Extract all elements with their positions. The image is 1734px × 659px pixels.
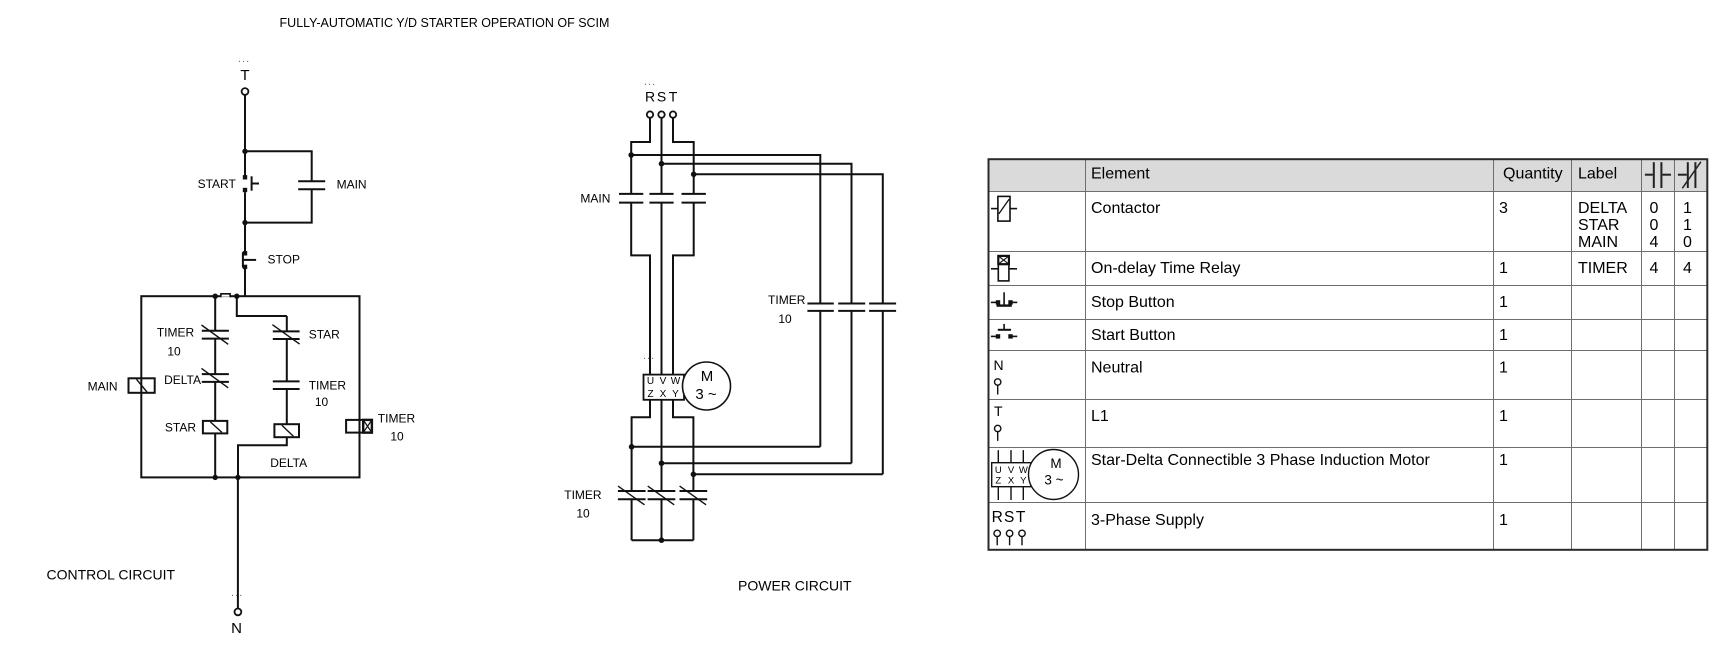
coil STAR <box>203 421 227 434</box>
svg-text:TIMER: TIMER <box>1578 260 1628 277</box>
svg-text:Y: Y <box>1020 476 1027 487</box>
symbol stop button <box>991 292 1017 305</box>
label STAR (middle) <box>309 327 340 341</box>
contact TIMER NO pole 3 <box>869 304 896 311</box>
svg-text:1: 1 <box>1499 327 1508 344</box>
row Contactor labels <box>1578 200 1692 251</box>
svg-text:Label: Label <box>1578 165 1617 182</box>
symbol L1 terminal <box>995 425 1001 441</box>
header Label <box>1578 165 1617 182</box>
junction top of start loop <box>242 149 247 154</box>
junction delta return 1 <box>629 444 635 450</box>
labels R S T <box>645 89 678 105</box>
svg-text:1: 1 <box>1499 359 1508 376</box>
push button STOP <box>243 251 256 269</box>
svg-text:1: 1 <box>1683 217 1692 234</box>
contact TIMER NC star pole 1 <box>618 486 646 505</box>
symbol contactor <box>991 196 1017 221</box>
svg-text:Y: Y <box>672 389 679 400</box>
label TIMER 10 (left) <box>157 326 195 359</box>
svg-text:0: 0 <box>1650 200 1659 217</box>
svg-text:1: 1 <box>1499 452 1508 469</box>
label MAIN (power) <box>580 192 610 206</box>
contact TIMER NO pole 1 <box>807 304 833 311</box>
svg-text:Contactor: Contactor <box>1091 200 1161 217</box>
svg-text:STAR: STAR <box>309 327 340 341</box>
label TIMER 10 (middle) <box>309 378 347 409</box>
wire start bypass loop <box>245 151 312 222</box>
junction star point <box>659 537 665 543</box>
wire star point bar <box>632 539 694 541</box>
svg-text:DELTA: DELTA <box>1578 200 1628 217</box>
svg-text:N: N <box>231 620 242 637</box>
svg-text:Element: Element <box>1091 165 1150 182</box>
svg-text:10: 10 <box>390 430 404 444</box>
wire START to STOP <box>244 192 246 253</box>
svg-text:T: T <box>994 403 1003 419</box>
svg-text:START: START <box>198 177 237 191</box>
svg-text:X: X <box>660 389 667 400</box>
table grid columns <box>1086 159 1675 550</box>
svg-text:T: T <box>240 67 249 84</box>
coil MAIN (left edge) <box>129 378 155 393</box>
title <box>280 16 610 30</box>
wire to N terminal <box>237 477 239 608</box>
node T label <box>240 67 249 84</box>
svg-text:N: N <box>994 357 1004 373</box>
wire delta return 2 <box>662 462 852 464</box>
contact MAIN NO pole 2 <box>649 194 673 203</box>
row Contactor text <box>1091 200 1508 217</box>
svg-text:On-delay Time Relay: On-delay Time Relay <box>1091 260 1240 277</box>
svg-text:M: M <box>701 368 714 385</box>
terminal R <box>647 111 653 117</box>
svg-text:V: V <box>1008 465 1015 476</box>
terminal N <box>235 609 242 616</box>
svg-text:...: ... <box>231 587 243 599</box>
svg-text:Stop Button: Stop Button <box>1091 294 1175 311</box>
svg-text:DELTA: DELTA <box>270 456 307 470</box>
svg-text:W: W <box>671 376 681 387</box>
svg-text:Neutral: Neutral <box>1091 359 1143 376</box>
svg-text:...: ... <box>643 350 655 362</box>
svg-text:TIMER: TIMER <box>378 411 416 425</box>
node N dots mark <box>231 587 243 599</box>
junction delta return 3 <box>691 472 697 478</box>
contact TIMER NC star pole 2 <box>648 486 676 505</box>
svg-text:X: X <box>1008 476 1015 487</box>
svg-text:TIMER: TIMER <box>564 488 602 502</box>
label DELTA (below) <box>270 456 307 470</box>
svg-text:STAR: STAR <box>1578 217 1619 234</box>
svg-text:10: 10 <box>778 312 792 326</box>
junction delta return 2 <box>659 460 665 466</box>
label MAIN (coil) <box>88 379 118 393</box>
svg-text:...: ... <box>238 53 250 65</box>
node RST dots mark <box>644 76 656 88</box>
label STAR (left) <box>165 420 196 434</box>
wire star branch V <box>661 400 663 540</box>
row Supply text <box>1091 512 1508 529</box>
svg-text:1: 1 <box>1499 408 1508 425</box>
svg-text:Start Button: Start Button <box>1091 327 1176 344</box>
junction left branch top <box>213 294 218 299</box>
svg-text:MAIN: MAIN <box>337 178 367 192</box>
junction T branch <box>691 172 697 178</box>
terminal S <box>658 111 664 117</box>
symbol star-delta motor <box>992 450 1079 501</box>
row Stop text <box>1091 294 1508 311</box>
terminal T <box>242 88 249 95</box>
svg-text:4: 4 <box>1683 260 1692 277</box>
wire phase S <box>661 118 663 375</box>
svg-text:W: W <box>1019 465 1028 476</box>
svg-text:T: T <box>669 89 678 105</box>
svg-text:R: R <box>645 89 655 105</box>
svg-text:10: 10 <box>167 345 181 359</box>
svg-text:L1: L1 <box>1091 408 1109 425</box>
contact TIMER NC (left branch) <box>202 325 229 344</box>
caption POWER CIRCUIT <box>738 578 852 594</box>
wire delta feed T <box>694 174 883 474</box>
svg-text:CONTROL CIRCUIT: CONTROL CIRCUIT <box>47 567 176 583</box>
label MAIN <box>337 178 367 192</box>
svg-text:3 ~: 3 ~ <box>695 386 717 403</box>
svg-text:U: U <box>995 465 1002 476</box>
wire star branch W <box>673 400 693 540</box>
coil DELTA <box>274 424 299 437</box>
header NC contact symbol <box>1678 162 1701 189</box>
svg-text:4: 4 <box>1650 234 1659 251</box>
junction R branch <box>628 152 634 158</box>
symbol 3-phase supply <box>992 509 1026 526</box>
wire left branch <box>214 296 216 477</box>
svg-text:10: 10 <box>315 395 329 409</box>
header Quantity <box>1503 165 1563 182</box>
contact TIMER NO pole 2 <box>838 304 865 311</box>
svg-text:0: 0 <box>1683 234 1692 251</box>
wire star branch U <box>632 400 650 540</box>
junction bottom of start loop <box>242 220 247 225</box>
node T dots mark <box>238 53 250 65</box>
label START <box>198 177 237 191</box>
wire delta feed R <box>631 155 820 447</box>
wire phase T <box>673 118 694 375</box>
svg-text:Quantity: Quantity <box>1503 165 1563 182</box>
motor terminal box <box>644 375 685 400</box>
svg-text:MAIN: MAIN <box>88 379 118 393</box>
terminal T <box>670 111 676 117</box>
junction S branch <box>659 161 665 167</box>
label TIMER 10 (right) <box>378 411 416 443</box>
wire junction to START <box>244 151 246 175</box>
junction bottom middle <box>235 475 240 480</box>
svg-text:POWER CIRCUIT: POWER CIRCUIT <box>738 578 852 594</box>
svg-text:MAIN: MAIN <box>1578 234 1618 251</box>
wire delta return 3 <box>693 473 882 475</box>
table outer border <box>989 159 1708 550</box>
svg-text:STOP: STOP <box>268 252 300 266</box>
svg-text:TIMER: TIMER <box>157 326 195 340</box>
svg-text:3: 3 <box>1499 200 1508 217</box>
wire hop on top edge <box>221 294 230 298</box>
label DELTA (left) <box>164 373 201 387</box>
svg-text:3-Phase Supply: 3-Phase Supply <box>1091 512 1204 529</box>
svg-text:MAIN: MAIN <box>580 192 610 206</box>
symbol on-delay time relay <box>991 256 1017 281</box>
svg-text:1: 1 <box>1683 200 1692 217</box>
svg-text:Z: Z <box>995 476 1001 487</box>
row L1 text <box>1091 408 1508 425</box>
table grid rows <box>989 192 1708 503</box>
motor M 3~ <box>683 362 731 410</box>
svg-text:1: 1 <box>1499 512 1508 529</box>
table header fill <box>989 159 1708 191</box>
coil TIMER with X box (right branch) <box>346 420 372 433</box>
row Neutral text <box>1091 359 1508 376</box>
svg-text:10: 10 <box>576 506 590 520</box>
label TIMER 10 (star contacts) <box>564 488 602 521</box>
header NO contact symbol <box>1645 162 1671 188</box>
row Motor text <box>1091 452 1508 469</box>
contact STAR NC (middle branch) <box>272 325 299 344</box>
wire T down to junction <box>244 95 246 151</box>
svg-text:0: 0 <box>1650 217 1659 234</box>
header Element <box>1091 165 1150 182</box>
svg-text:TIMER: TIMER <box>768 293 806 307</box>
svg-text:STAR: STAR <box>165 420 196 434</box>
label STOP <box>268 252 300 266</box>
contact MAIN NO (seal-in) <box>298 181 325 189</box>
svg-text:FULLY-AUTOMATIC Y/D STARTER OP: FULLY-AUTOMATIC Y/D STARTER OPERATION OF… <box>280 16 610 30</box>
svg-text:DELTA: DELTA <box>164 373 201 387</box>
svg-text:U: U <box>647 376 654 387</box>
row On-delay text <box>1091 260 1692 277</box>
contact MAIN NO pole 3 <box>682 194 706 203</box>
svg-text:R: R <box>992 509 1003 526</box>
motor terminal labels <box>647 376 681 400</box>
svg-text:4: 4 <box>1650 260 1659 277</box>
symbol start button <box>991 324 1017 339</box>
svg-text:3 ~: 3 ~ <box>1044 473 1063 488</box>
svg-text:TIMER: TIMER <box>309 378 347 392</box>
contact TIMER NC star pole 3 <box>680 486 708 505</box>
svg-text:...: ... <box>644 76 656 88</box>
caption CONTROL CIRCUIT <box>47 567 176 583</box>
wire middle branch <box>238 316 287 477</box>
wire middle branch top jog <box>237 296 287 316</box>
label TIMER 10 (delta contacts) <box>768 293 806 326</box>
svg-text:S: S <box>1004 509 1014 526</box>
svg-text:Z: Z <box>647 389 653 400</box>
svg-text:S: S <box>657 89 666 105</box>
push button START <box>243 175 259 192</box>
junction bottom left <box>213 475 218 480</box>
contact DELTA NC <box>202 368 229 387</box>
symbol neutral terminal <box>995 379 1001 395</box>
svg-text:V: V <box>660 376 667 387</box>
svg-text:1: 1 <box>1499 260 1508 277</box>
contact MAIN NO pole 1 <box>619 194 643 203</box>
row Start text <box>1091 327 1508 344</box>
wire STOP to rung box <box>244 267 246 296</box>
junction middle branch top <box>234 294 239 299</box>
motor dots mark <box>643 350 655 362</box>
contact TIMER NO delayed (middle) <box>273 381 300 389</box>
svg-text:M: M <box>1050 456 1061 471</box>
control rung outer box <box>141 296 359 477</box>
wire delta return 1 <box>632 446 821 448</box>
node N label <box>231 620 242 637</box>
wire delta feed S <box>662 164 852 464</box>
svg-text:T: T <box>1016 509 1026 526</box>
wire phase R <box>631 118 650 375</box>
svg-text:Star-Delta Connectible 3 Phase: Star-Delta Connectible 3 Phase Induction… <box>1091 452 1431 469</box>
svg-text:1: 1 <box>1499 294 1508 311</box>
